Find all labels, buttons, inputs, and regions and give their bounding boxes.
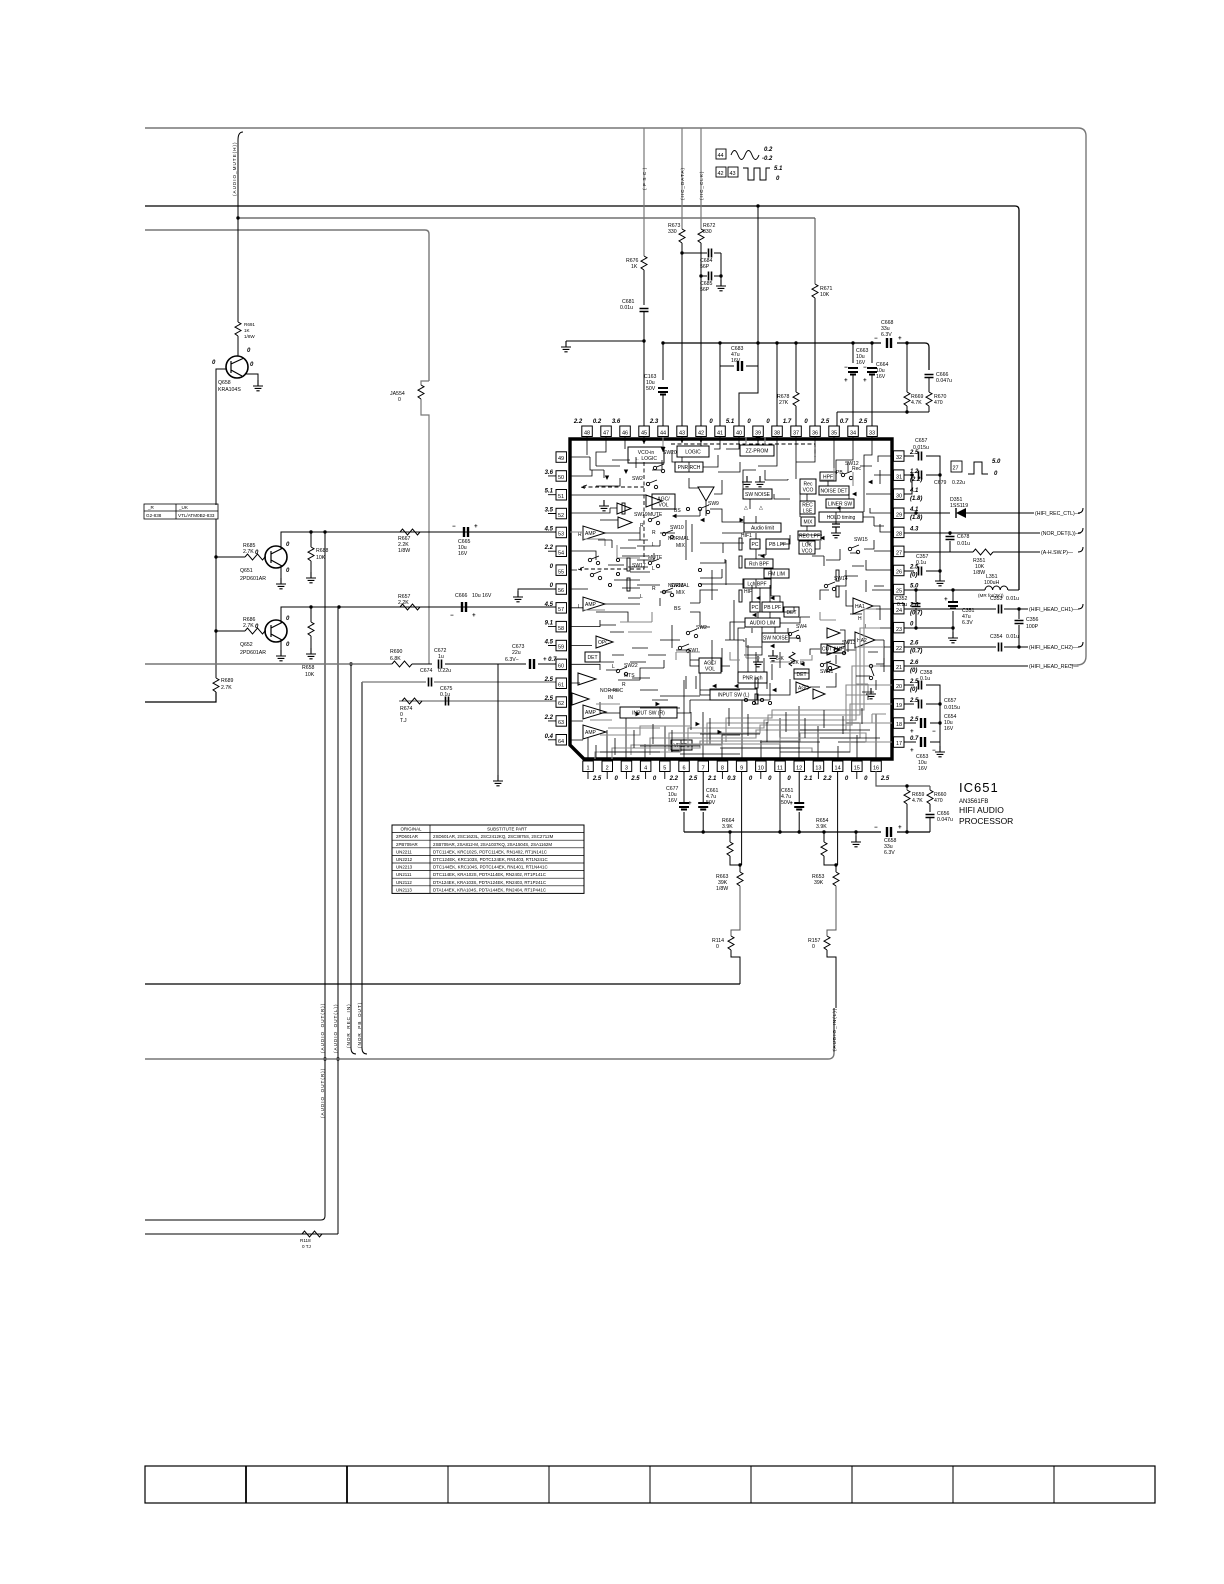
svg-text:18: 18 — [896, 722, 902, 728]
svg-text:100uH: 100uH — [984, 580, 1000, 586]
svg-text:45: 45 — [641, 431, 647, 437]
block DET left — [585, 652, 600, 662]
op-amp HA2 — [855, 632, 875, 648]
pin 25 — [894, 584, 920, 595]
op-amp NOR REC amp — [572, 693, 589, 705]
svg-text:DET: DET — [588, 655, 598, 661]
wire pin22 HIFI_HEAD_CH2 — [904, 642, 1083, 647]
capacitor C661 — [698, 803, 708, 810]
op-amp HA1 — [853, 598, 873, 614]
wire bus y343 — [663, 343, 929, 370]
pin 63 — [544, 715, 567, 726]
svg-text:24: 24 — [896, 608, 902, 614]
block AGC/VOL upper — [652, 494, 675, 509]
wire AUDIO bus top gray — [145, 128, 1086, 665]
capacitor C356 — [1018, 609, 1020, 647]
svg-text:SW22: SW22 — [624, 663, 638, 669]
svg-text:+: + — [910, 748, 914, 754]
block INPUT SW (R) — [620, 707, 677, 718]
svg-text:Q651: Q651 — [240, 568, 253, 574]
pin 5 — [660, 761, 679, 782]
pin 30 — [894, 488, 923, 502]
capacitor C353 — [999, 605, 1002, 614]
switch SW — [590, 571, 601, 580]
svg-text:MIX: MIX — [676, 543, 686, 549]
pin 62 — [544, 696, 567, 707]
block LCK VCO — [799, 541, 815, 555]
svg-text:C678: C678 — [957, 534, 970, 540]
resistor R674 — [402, 698, 422, 704]
svg-text:57: 57 — [558, 607, 564, 613]
svg-text:OPC: OPC — [598, 640, 609, 646]
block REC LSE — [800, 501, 815, 515]
svg-text:AMP: AMP — [585, 730, 597, 736]
svg-text:(AUDIO_IN(L)): (AUDIO_IN(L)) — [832, 1008, 837, 1051]
op-amp OB1 — [617, 503, 631, 514]
svg-text:5.1: 5.1 — [726, 419, 735, 425]
resistor R657 — [400, 604, 420, 610]
switch SW2 — [686, 625, 707, 638]
svg-text:2.6: 2.6 — [909, 641, 919, 647]
svg-text:6: 6 — [682, 766, 685, 772]
svg-text:27K: 27K — [779, 400, 789, 406]
wire pin38 riser — [775, 341, 778, 344]
svg-text:ZZ-PROM: ZZ-PROM — [746, 449, 769, 455]
svg-text:41: 41 — [717, 431, 723, 437]
block INPUT SW (L) — [710, 689, 757, 700]
svg-text:2PD601AR: 2PD601AR — [240, 650, 266, 656]
svg-text:2.5: 2.5 — [858, 419, 868, 425]
pin 57 — [544, 602, 567, 613]
svg-text:5.1: 5.1 — [545, 489, 554, 495]
capacitor C672 — [439, 660, 442, 669]
block HOLD timing — [819, 512, 863, 522]
svg-text:(IIC_DATA): (IIC_DATA) — [680, 167, 685, 200]
capacitor C354 — [999, 643, 1002, 652]
switch SW1 — [678, 644, 699, 654]
node AUDIO_OUT(R) tap — [323, 530, 326, 533]
wire C672 to C673 — [445, 663, 526, 665]
pin 42 — [696, 426, 707, 437]
svg-text:16V: 16V — [876, 374, 886, 380]
pin 9 — [736, 761, 753, 782]
svg-text:C674: C674 — [420, 668, 433, 674]
svg-text:27: 27 — [953, 466, 959, 472]
svg-text:LOGIC: LOGIC — [685, 450, 701, 456]
pin 21 — [894, 660, 920, 674]
svg-text:MUTE: MUTE — [648, 512, 663, 518]
wire pin30 jog — [904, 475, 912, 494]
svg-text:0.3: 0.3 — [727, 776, 736, 782]
block SW NOISE lower — [762, 633, 789, 642]
svg-text:VCO: VCO — [803, 488, 814, 494]
pin 13 — [813, 761, 832, 782]
wire pin23 lead — [904, 627, 953, 629]
pin 38 — [766, 419, 782, 437]
pin 4 — [640, 761, 657, 782]
svg-text:2SD601AR, 2SC1623L, 2SC2412KQ,: 2SD601AR, 2SC1623L, 2SC2412KQ, 2SC3875S,… — [433, 834, 554, 839]
svg-text:MIX: MIX — [676, 590, 686, 596]
svg-text:(HIFI_HEAD_CH2)—: (HIFI_HEAD_CH2)— — [1029, 645, 1079, 651]
svg-text:10K: 10K — [820, 292, 830, 298]
svg-text:L: L — [865, 624, 868, 630]
svg-text:−: − — [874, 825, 878, 831]
wire pin19 lead — [904, 703, 940, 705]
svg-text:50: 50 — [558, 475, 564, 481]
pin 40 — [726, 419, 744, 437]
switch SW4 — [788, 624, 807, 639]
op-amp AMP pin64 — [583, 725, 606, 739]
pin 41 — [709, 419, 725, 437]
block Audio limit — [744, 523, 781, 532]
capacitor C668 — [887, 338, 891, 348]
capacitor C666 — [925, 375, 934, 378]
svg-text:1/8W: 1/8W — [398, 548, 410, 554]
capacitor C675 — [446, 697, 449, 706]
resistor R678 — [794, 341, 797, 344]
svg-text:2.5: 2.5 — [820, 419, 830, 425]
switch SW10 — [662, 525, 684, 539]
svg-text:16V: 16V — [918, 766, 928, 772]
wire pin29 HIFI_REC_CTL — [904, 508, 1083, 513]
pin 49 — [556, 452, 567, 463]
resistor R671 — [814, 218, 816, 284]
pin 55 — [550, 564, 567, 575]
svg-text:PC: PC — [752, 605, 759, 611]
pin 2 — [602, 761, 619, 782]
wire pin28 NOR_DET — [904, 528, 1083, 533]
pin 36 — [804, 419, 820, 437]
svg-text:15: 15 — [854, 766, 860, 772]
resistor R686 — [245, 628, 265, 634]
svg-text:2.5: 2.5 — [909, 717, 919, 723]
pin 23 — [894, 622, 915, 633]
svg-text:5-K: 5-K — [776, 656, 784, 662]
wire pin stubs bottom — [588, 771, 857, 779]
pin 3 — [621, 761, 640, 782]
block SW NOISE upper — [743, 489, 772, 499]
svg-text:T.J: T.J — [400, 718, 407, 724]
pin 15 — [852, 761, 869, 782]
resistor R670 — [926, 392, 932, 406]
svg-text:HIF: HIF — [744, 589, 752, 595]
svg-text:SW NOISE: SW NOISE — [745, 492, 771, 498]
node Q652 base junction — [214, 629, 217, 632]
capacitor C673 — [530, 659, 534, 669]
wire pin6 cap lead — [683, 771, 685, 832]
block VREF1 — [671, 740, 692, 750]
ground stub y341 — [561, 341, 571, 352]
svg-text:−: − — [452, 524, 456, 530]
capacitor C677 — [679, 803, 689, 810]
pin 11 — [775, 761, 792, 782]
svg-text:R: R — [652, 530, 656, 536]
wire gray audio bus y1059 — [145, 1052, 834, 1059]
svg-text:52: 52 — [558, 513, 564, 519]
svg-text:+: + — [844, 378, 848, 384]
pin 24 — [894, 603, 923, 617]
resistor R669 — [905, 341, 908, 344]
capacitor C684 — [682, 252, 721, 254]
svg-text:DTA144EK, KRA104S, PDTA144EK,: DTA144EK, KRA104S, PDTA144EK, RN2404, RT… — [433, 887, 546, 892]
wire pin17 lead — [904, 741, 940, 743]
node arrowheads interior — [605, 470, 873, 735]
svg-text:16V: 16V — [731, 358, 741, 364]
svg-text:SW11: SW11 — [820, 669, 833, 675]
node pin39 on bus — [756, 204, 759, 207]
svg-text:2.6: 2.6 — [909, 660, 919, 666]
pin 43 — [677, 426, 688, 437]
svg-text:17: 17 — [896, 741, 902, 747]
svg-text:VOL: VOL — [705, 667, 715, 673]
pin 17 — [894, 736, 920, 747]
switch SW11 — [820, 661, 833, 675]
svg-text:(AUDIO_OUT(R)): (AUDIO_OUT(R)) — [320, 1003, 325, 1053]
wire FSC vertical — [643, 128, 645, 256]
svg-text:3.5: 3.5 — [545, 508, 554, 514]
svg-text:3.6: 3.6 — [612, 419, 621, 425]
svg-text:L: L — [652, 542, 655, 548]
svg-text:(NOR_DET(L))—: (NOR_DET(L))— — [1041, 531, 1082, 537]
svg-text:2.5: 2.5 — [592, 776, 602, 782]
op-amp buffer down — [698, 487, 714, 501]
svg-text:PB LPF: PB LPF — [769, 542, 786, 548]
node title block strip — [145, 1466, 1155, 1503]
node C684 tap — [680, 251, 683, 254]
svg-text:DTC124EK, KRC103S, PDTC124EK,: DTC124EK, KRC103S, PDTC124EK, RN1403, RT… — [433, 857, 548, 862]
wire ground stub y341 — [566, 340, 644, 342]
block PB LPF upper — [766, 539, 789, 549]
svg-text:56P: 56P — [700, 287, 710, 293]
wire dashed pin51 branch — [581, 485, 644, 489]
wire pin61 line y682 — [362, 681, 562, 683]
resistor R157 — [824, 936, 830, 950]
svg-text:50V: 50V — [706, 800, 716, 806]
svg-text:3.9K: 3.9K — [722, 824, 733, 830]
svg-text:10: 10 — [758, 766, 764, 772]
svg-text:VTL/ATM0B2-833: VTL/ATM0B2-833 — [178, 513, 215, 518]
svg-text:DTC114EK, KRC102S, PDTC114EK,: DTC114EK, KRC102S, PDTC114EK, RN1402, RT… — [433, 849, 547, 854]
waveform legend pin44 — [716, 149, 726, 159]
resistor interior 32K — [789, 652, 795, 666]
ground AGC bus — [854, 830, 857, 833]
pin 26 — [894, 564, 920, 578]
svg-text:-0.2: -0.2 — [762, 156, 773, 162]
svg-text:2PD601AR: 2PD601AR — [240, 576, 266, 582]
svg-text:(HIFI_HEAD_REC)—: (HIFI_HEAD_REC)— — [1029, 664, 1079, 670]
wire R653 to R157 — [827, 886, 836, 936]
svg-text:39: 39 — [755, 431, 761, 437]
svg-text:(HIFI_REC_CTL)—: (HIFI_REC_CTL)— — [1035, 511, 1081, 517]
wire R690 to C672 — [412, 663, 432, 665]
inductor L351 — [985, 586, 1008, 590]
svg-text:AMP: AMP — [585, 710, 597, 716]
capacitor C674 — [429, 678, 432, 687]
node HIF labels — [741, 533, 784, 662]
capacitor C665 — [464, 527, 468, 537]
wire Q652 base — [216, 630, 266, 632]
capacitor C678 — [949, 533, 951, 552]
node C685 tap — [699, 274, 702, 277]
svg-text:4.7K: 4.7K — [912, 798, 923, 804]
svg-text:2.2: 2.2 — [544, 715, 554, 721]
svg-text:0.015u: 0.015u — [944, 705, 960, 711]
capacitor C663 — [851, 341, 854, 344]
svg-text:49: 49 — [558, 456, 564, 462]
op-amp U IC651 body — [570, 439, 892, 759]
switch SW2 — [632, 476, 658, 489]
capacitor C358 — [919, 681, 922, 690]
wire pin27 A-H.SW.P — [904, 547, 1083, 552]
node interior small labels — [578, 466, 868, 701]
pin 10 — [756, 761, 773, 782]
svg-text:5: 5 — [663, 766, 666, 772]
svg-text:16V: 16V — [668, 798, 678, 804]
node AUDIO_OUT(L) tap — [337, 605, 340, 608]
block LOGIC — [677, 446, 709, 457]
wire pin18 lead — [904, 722, 940, 724]
block PB LPF lower — [762, 602, 783, 612]
svg-text:L: L — [578, 604, 581, 610]
svg-text:0.7: 0.7 — [910, 736, 919, 742]
svg-text:DTC144EK, KRC104S, PDTC144EK,: DTC144EK, KRC104S, PDTC144EK, RN1401, RT… — [433, 865, 548, 870]
block Rch BPF — [745, 559, 773, 568]
svg-text:56: 56 — [558, 588, 564, 594]
svg-text:G2-838: G2-838 — [146, 513, 162, 518]
svg-text:DTC114EK, KRA102S, PDTA114EK,: DTC114EK, KRA102S, PDTA114EK, RN2402, RT… — [433, 872, 546, 877]
node arrowheads top — [642, 437, 761, 452]
svg-text:0.047u: 0.047u — [936, 378, 952, 384]
svg-text:(NOR_PB_OUT): (NOR_PB_OUT) — [357, 1002, 362, 1048]
pin 58 — [545, 621, 567, 632]
svg-text:0.1u: 0.1u — [920, 676, 930, 682]
svg-text:C666: C666 — [455, 593, 468, 599]
wire gray bus y218 — [238, 217, 815, 219]
pin 27 — [894, 546, 905, 557]
wire Q651 emitter to ground — [280, 565, 282, 578]
capacitor C685 — [701, 275, 721, 277]
wire IIC_CLK vertical — [700, 128, 702, 229]
svg-text:2.2: 2.2 — [544, 545, 554, 551]
svg-text:UN2112: UN2112 — [396, 880, 412, 885]
svg-text:−: − — [932, 748, 936, 754]
op-amp amp T1 — [646, 495, 662, 507]
pin 44 — [649, 419, 668, 437]
svg-text:0: 0 — [716, 944, 719, 950]
svg-text:(A-H.SW.P)—: (A-H.SW.P)— — [1041, 550, 1074, 556]
svg-text:INPUT SW (L): INPUT SW (L) — [718, 693, 750, 699]
pin 32 — [894, 450, 920, 461]
switch SW17 — [632, 559, 660, 569]
block LINER SW — [826, 499, 854, 508]
svg-text:(0.7): (0.7) — [910, 649, 922, 655]
wire pin12 cap lead — [798, 771, 800, 832]
svg-text:UN2213: UN2213 — [396, 865, 413, 870]
svg-text:2.5: 2.5 — [544, 696, 554, 702]
svg-text:6.3V: 6.3V — [962, 620, 973, 626]
switch SW9 — [698, 501, 719, 514]
svg-text:0.01u: 0.01u — [620, 305, 633, 311]
wire Q658 collector to ground — [245, 374, 258, 380]
svg-text:R: R — [578, 532, 582, 538]
svg-text:9.1: 9.1 — [545, 621, 554, 627]
pin 31 — [894, 469, 923, 483]
ground pin56 — [513, 591, 523, 602]
wire dashed ZZ-PROM box — [671, 444, 815, 457]
wire pin62 line y701 — [399, 700, 562, 702]
pin 6 — [679, 761, 698, 782]
node AUDIO_OUT(L) on bus — [336, 1057, 339, 1060]
svg-text:20: 20 — [896, 684, 902, 690]
wire C673 gnd stub — [497, 664, 499, 775]
svg-text:+: + — [688, 801, 692, 807]
ground interior 6 — [866, 688, 876, 699]
svg-text:48: 48 — [584, 431, 590, 437]
wire pin32 lead — [904, 456, 940, 471]
svg-text:+: + — [474, 524, 478, 530]
svg-text:DTA124EK, KRA103S, PDTA124EK,: DTA124EK, KRA103S, PDTA124EK, RN2403, RT… — [433, 880, 546, 885]
svg-text:25: 25 — [896, 589, 902, 595]
svg-text:60: 60 — [558, 664, 564, 670]
op-amp OB2 — [618, 517, 632, 528]
svg-text:6.3V: 6.3V — [881, 332, 892, 338]
wire Q651 base — [216, 556, 266, 558]
svg-text:L: L — [652, 566, 655, 572]
switch pin20 chain — [869, 664, 874, 679]
svg-text:63: 63 — [558, 720, 564, 726]
svg-text:MIX: MIX — [804, 520, 814, 526]
svg-text:22u: 22u — [512, 650, 521, 656]
block PC lower — [750, 602, 760, 612]
wire Q651 collector up — [281, 532, 562, 549]
svg-text:SW20: SW20 — [663, 450, 677, 456]
svg-text:UN2111: UN2111 — [396, 872, 412, 877]
pin 54 — [544, 545, 567, 556]
svg-text:6.8K: 6.8K — [390, 656, 401, 662]
pin 12 — [794, 761, 813, 782]
svg-text:31: 31 — [896, 474, 902, 480]
wire main black bus y206 — [145, 206, 1019, 590]
pin 19 — [894, 698, 920, 709]
resistor R653 — [835, 865, 837, 872]
svg-text:_UK: _UK — [178, 505, 189, 510]
wire pin39 riser — [757, 206, 759, 343]
svg-text:△: △ — [744, 505, 748, 511]
svg-text:Q652: Q652 — [240, 642, 253, 648]
svg-text:△: △ — [759, 505, 763, 511]
pin 45 — [639, 426, 650, 437]
node legend pin27 — [951, 459, 1001, 477]
svg-text:Rec: Rec — [852, 466, 861, 472]
wire AGC bus y832 — [684, 831, 930, 833]
resistor R672 — [698, 229, 704, 243]
resistor R673 — [679, 229, 685, 243]
wire C684-C685 join — [720, 253, 722, 280]
svg-text:R690: R690 — [390, 649, 403, 655]
svg-text:4.5: 4.5 — [544, 602, 554, 608]
svg-text:34: 34 — [850, 431, 856, 437]
svg-text:BS: BS — [674, 606, 681, 612]
svg-text:26: 26 — [896, 570, 902, 576]
ground interior 1 — [742, 476, 752, 487]
wire pin26 lead — [904, 552, 940, 571]
wire Q658 emitter — [216, 369, 226, 505]
svg-text:38: 38 — [774, 431, 780, 437]
wire pin16 supply — [876, 771, 930, 790]
svg-text:_R: _R — [147, 505, 155, 510]
svg-text:0 TJ: 0 TJ — [302, 1244, 311, 1249]
svg-text:HIF1: HIF1 — [741, 533, 752, 539]
